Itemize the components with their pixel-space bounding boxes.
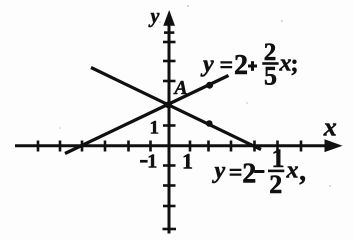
- svg-text:2: 2: [234, 50, 248, 81]
- svg-text:,: ,: [299, 156, 306, 186]
- svg-text:1: 1: [150, 117, 160, 138]
- svg-text:1: 1: [147, 150, 157, 172]
- svg-text:=: =: [229, 160, 243, 186]
- svg-text:2: 2: [242, 158, 256, 189]
- svg-text:y: y: [200, 52, 214, 78]
- svg-text:1: 1: [182, 149, 193, 174]
- svg-text:A: A: [172, 78, 187, 99]
- svg-text:1: 1: [272, 144, 285, 173]
- svg-text:=: =: [220, 53, 234, 79]
- svg-text:y: y: [212, 158, 226, 184]
- svg-text:2: 2: [269, 170, 282, 199]
- svg-text:;: ;: [291, 51, 299, 77]
- svg-text:5: 5: [264, 61, 277, 90]
- svg-text:x: x: [323, 112, 337, 141]
- svg-text:y: y: [149, 6, 160, 28]
- svg-text:x: x: [286, 158, 299, 184]
